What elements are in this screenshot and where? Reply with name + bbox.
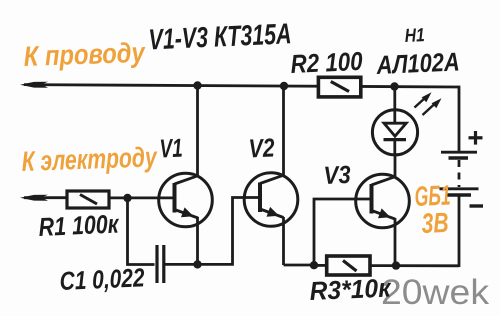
svg-text:R1 100к: R1 100к bbox=[38, 208, 121, 242]
wire R1 to V1 base bbox=[109, 196, 175, 199]
svg-text:V2: V2 bbox=[248, 132, 276, 163]
arrow to electrode (к электроду) bbox=[20, 195, 48, 201]
svg-text:C1 0,022: C1 0,022 bbox=[59, 262, 146, 296]
LED H1 lead from top rail bbox=[393, 87, 396, 111]
resistor R2 bbox=[318, 77, 360, 97]
node junction V2 emitter / V3 base / R3 left bbox=[310, 261, 318, 269]
battery minus sign bbox=[470, 204, 484, 207]
wire V3 emitter vertical bbox=[394, 218, 397, 266]
wire V2 collector vertical bbox=[282, 86, 285, 176]
transistor V3 bbox=[356, 174, 410, 228]
node junction R3 right / V3 emitter / battery minus rail bbox=[392, 261, 400, 269]
node junction R1 / C1 / V1 base bbox=[123, 194, 131, 202]
wire R3 to V3 emitter node bbox=[370, 264, 459, 267]
wire C1 to V1 emitter node bbox=[165, 263, 198, 266]
wire V2 emitter vertical bbox=[282, 217, 285, 265]
wire junction down to C1 bbox=[128, 198, 155, 265]
svg-text:R3*10к: R3*10к bbox=[309, 272, 393, 306]
battery GB1 cell 2 bbox=[440, 189, 479, 195]
node junction V2 collector / R2 left bbox=[280, 82, 288, 90]
wire V1 collector vertical bbox=[196, 86, 199, 177]
capacitor C1 bbox=[157, 245, 164, 283]
svg-text:3В: 3В bbox=[421, 207, 449, 239]
wire V2 emitter to R3 node bbox=[284, 264, 315, 267]
svg-text:V1-V3 КТ315А: V1-V3 КТ315А bbox=[148, 18, 292, 56]
svg-text:V1: V1 bbox=[159, 133, 183, 164]
wire V3 base vertical link bbox=[314, 199, 372, 265]
LED H1 bbox=[372, 110, 417, 155]
wire electrode to R1 bbox=[24, 196, 68, 199]
battery GB1 cell 1 bbox=[441, 152, 477, 158]
wire right rail top (to battery plus) bbox=[458, 86, 461, 152]
svg-text:АЛ102А: АЛ102А bbox=[375, 46, 460, 80]
battery plus sign bbox=[469, 131, 483, 145]
svg-text:К проводу: К проводу bbox=[23, 37, 146, 72]
wire top rail bbox=[24, 85, 459, 87]
node junction C1 / V1 emitter / V2 base link bbox=[193, 260, 201, 268]
wire V1 emitter node to V2 base bbox=[198, 198, 261, 265]
LED emission arrow 1 bbox=[415, 92, 432, 107]
resistor R3 bbox=[327, 256, 370, 275]
svg-text:Н1: Н1 bbox=[404, 25, 425, 47]
svg-text:К электроду: К электроду bbox=[21, 141, 158, 177]
node junction V1 collector / top rail bbox=[193, 81, 201, 89]
svg-text:20wek: 20wek bbox=[381, 273, 490, 312]
wire R3 node to R3 bbox=[314, 264, 328, 267]
transistor V1 bbox=[159, 173, 213, 227]
resistor R1 bbox=[67, 191, 109, 208]
wire V3 collector to LED bbox=[394, 155, 397, 177]
transistor V2 bbox=[244, 173, 298, 227]
arrow to wire (к проводу) bbox=[20, 82, 48, 88]
wire V1 emitter vertical bbox=[196, 217, 199, 264]
wire right rail bottom (battery minus to bottom rail) bbox=[458, 195, 461, 267]
LED emission arrow 2 bbox=[423, 98, 442, 115]
wire battery dashed link between cells bbox=[458, 160, 461, 187]
node junction LED H1 / top rail bbox=[390, 82, 398, 90]
svg-text:R2 100: R2 100 bbox=[290, 46, 364, 79]
svg-text:V3: V3 bbox=[323, 161, 351, 190]
